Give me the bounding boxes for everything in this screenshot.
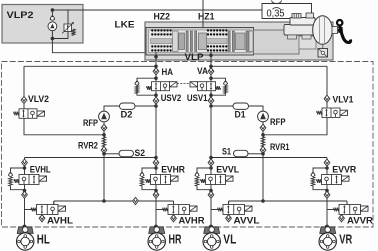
svg-text:RVR1: RVR1 [270,142,290,152]
wire AVVL return stub [228,201,230,205]
node wheel connection VL [209,225,213,229]
wire EVHR bypass lower [142,186,156,190]
wire VA branch to VLV1 [211,65,327,67]
wire VA main line down to wheel VL [210,60,212,227]
bypass check valve of EVHL [8,172,13,176]
node suction junction right [261,133,265,137]
node above EVVL [209,166,213,170]
wire USV2 bypass loop [137,78,156,95]
brake fluid reservoir caps [292,13,314,18]
booster pushrod (pictorial) [332,27,338,34]
reservoir funnel symbol [272,1,282,4]
svg-text:RFP: RFP [83,118,98,128]
wire master cylinder to fitting [322,35,324,49]
valve EVVR [322,175,342,185]
valve AVHR [168,205,190,215]
wire VLV2 to pump suction left [24,118,104,135]
solenoid of EVHR [171,176,179,181]
wire supply line front axle [211,157,327,159]
wire return line rear axle [54,200,174,202]
node above EVVR [325,166,329,170]
restrictor spring RVR2 [102,137,106,147]
check valve in return line rear [133,197,139,204]
wire reservoir loop upper path [262,4,312,19]
svg-text:AVHL: AVHL [47,215,73,225]
check valve at pump inlet (right) [260,124,266,131]
wire VLV1 feed from VA [326,66,328,108]
wire EVVL bypass upper [197,168,211,172]
check valve RVR2 [101,146,107,153]
node supply junction VL [209,156,213,160]
check valve below EVHL [22,191,28,198]
solenoid of EVVR [342,176,350,181]
check valve RVR1 [260,146,266,153]
wire reservoir loop lower path [262,10,312,19]
brake fluid reservoir body [290,18,315,26]
node above EVHR [154,166,158,170]
wire EVHR bypass upper [142,168,156,172]
pressure relief valve in VLP2 [64,24,72,32]
check valve below EVVL [208,191,214,198]
svg-text:HL: HL [37,232,50,246]
spring of VLV2 [14,112,20,116]
wire VLV1 to pump suction right [263,118,327,135]
wire AVVR return stub [346,201,348,205]
spring of EVHR [146,179,151,183]
svg-text:VA: VA [197,66,208,76]
check valve below EVHR [153,191,159,198]
node HZ2 port [154,55,158,59]
pump RFP (right) [258,111,269,122]
wire suction column right [262,131,264,201]
damper D1 [233,103,249,109]
wire EVHL bypass upper [11,168,25,172]
valve AVHL [37,205,59,215]
check valve below USV1 [208,97,214,104]
wire AVHL return stub [53,201,55,205]
node wheel connection HL [22,225,26,229]
pushrod line into master cylinder [202,0,204,28]
wheel brake VL caliper [204,227,220,234]
svg-text:EVVL: EVVL [216,164,239,174]
node below USV2 [154,93,158,97]
port HZ1 line [210,52,212,66]
wire AVVR return stub [346,201,348,205]
node below EVHR [154,189,158,193]
piston spring HZ2 (dot grid) [151,29,172,51]
wire supply line rear axle [25,157,157,159]
node HA junction [154,65,158,69]
solenoid of USV1 [190,82,198,87]
piston rod HZ2 [151,39,173,44]
spring of VLV1 [317,111,323,115]
solenoid of AVHR [190,206,198,211]
spring of USV1 [216,86,221,90]
node return junction right [261,199,265,203]
bypass check valve of USV2 [135,81,140,85]
master cylinder body shell [146,28,254,56]
check valve below AVHR [171,215,177,222]
svg-text:EVHL: EVHL [30,164,51,174]
brake booster (pictorial) [313,16,333,45]
svg-text:VLV2: VLV2 [28,94,49,104]
wheel brake HR caliper [149,227,165,234]
svg-text:S1: S1 [222,146,231,156]
solenoid of USV2 [170,82,178,87]
svg-text:USV1: USV1 [187,93,208,103]
spring of AVVL [218,208,224,212]
check valve at VA [208,68,214,75]
valve EVHR [151,175,171,185]
spring of AVHL [31,208,37,212]
spring of AVVR [334,208,340,212]
accumulator S1 [234,150,249,156]
orifice arc symbol [273,8,281,10]
wire VLV2 feed from HA [23,66,25,109]
solenoid of AVVR [361,206,369,211]
wire wheel line HL [24,158,26,227]
check valve above EVVR [324,159,330,166]
wire to accumulator S1 [247,153,263,155]
piston rod HZ1 [207,39,228,44]
wire AVVL return stub [228,201,230,205]
wire wheel line VR [326,158,328,227]
pre-charge pump unit VLP2 box [2,5,83,44]
port HZ2 line [155,52,157,66]
wheel brake VR caliper [320,227,336,234]
check valve below AVVL [226,215,232,222]
node HZ1 port [209,54,213,58]
svg-text:VLV1: VLV1 [333,94,354,104]
valve VLV2 [19,109,37,119]
svg-text:VL: VL [223,232,236,246]
check valve above pump VLP2 [50,15,55,20]
wire AVHR return stub [173,201,175,205]
bypass spring of USV1 [224,86,228,94]
wire relief valve drop [67,10,69,24]
check valve below AVHL [39,215,45,222]
piston spring HZ1 (dot grid) [207,29,228,51]
check valve above EVHL [22,159,28,166]
spring of EVHL [14,179,19,183]
svg-text:HZ2: HZ2 [154,12,171,22]
svg-text:HR: HR [169,232,182,246]
valve AVVL [223,205,245,215]
wheel brake HR disc [148,233,165,250]
hydraulic unit boundary (dashed box) [2,62,374,228]
pump RFP (left) [99,111,110,122]
wire AVVR input from wheel line [327,209,339,211]
wheel brake VL disc [203,233,220,250]
solenoid of AVHL [58,206,66,211]
node VA junction [209,65,213,69]
check valve at HA [153,68,159,75]
wire VLP2 suction to master cylinder VLP port [52,39,144,53]
seals HZ2 [186,31,188,52]
node wheel connection VR [325,225,329,229]
svg-text:D1: D1 [235,109,246,119]
solenoid of EVVL [226,176,234,181]
check valve below USV2 [153,97,159,104]
node suction junction left [102,133,106,137]
node above USV1 [209,76,213,80]
svg-text:LKE: LKE [115,20,136,31]
spring of EVVR [317,179,322,183]
svg-text:USV2: USV2 [161,93,182,103]
node accumulator junction S2 [102,152,106,156]
wire HA main line down to wheel HR [155,60,157,227]
svg-text:HA: HA [162,67,174,77]
valve EVHL [19,175,39,185]
wheel brake HL caliper [17,227,33,234]
svg-text:HZ1: HZ1 [198,12,215,22]
bypass spring of EVHR [140,177,144,186]
accumulator S2 [119,150,134,156]
restrictor spring RVR1 [261,137,265,147]
solenoid of VLV1 [340,110,348,115]
wire to accumulator S2 [104,153,120,155]
node above EVHL [23,166,27,170]
wire EVHL bypass lower [11,186,25,190]
wire AVHR input from wheel line [156,209,168,211]
node accumulator junction S1 [261,152,265,156]
master cylinder body (pictorial) [284,25,314,36]
wire AVVL input from wheel line [211,209,223,211]
master cylinder right extension shells [254,30,300,54]
valve EVVL [206,175,226,185]
check valve at pump inlet (left) [101,124,107,131]
svg-text:AVVR: AVVR [347,215,373,225]
check valve below EVVR [324,191,330,198]
svg-text:AVVL: AVVL [234,215,260,225]
bypass spring of EVVL [195,177,199,186]
spring of EVVL [201,179,206,183]
node below USV1 [209,93,213,97]
spring of AVHR [163,208,169,212]
node below EVHL [23,189,27,193]
check valve above VLV1 [324,95,330,102]
spring of USV2 [147,86,152,90]
svg-text:RVR2: RVR2 [78,140,98,150]
wire pump RFP right to check [262,122,264,125]
node below EVVL [209,189,213,193]
wire return line front axle [229,200,347,202]
wire AVHR return stub [173,201,175,205]
valve USV2 [152,82,170,91]
node below EVVR [325,189,329,193]
solenoid of VLV2 [37,111,45,116]
wire pump RFP left to check [103,122,105,125]
wire damper D1 branch [211,106,263,111]
svg-text:RFP: RFP [270,117,286,127]
svg-text:VR: VR [339,232,352,246]
svg-text:0,35: 0,35 [267,8,285,19]
svg-text:D2: D2 [121,109,133,119]
bypass spring of USV2 [135,86,139,94]
wire pump bottom [51,31,53,39]
node return junction left [102,199,106,203]
valve VLV1 [322,108,340,118]
wire VLP2 to reservoir orifice loop [52,10,262,15]
wire relief valve bottom loop [52,32,68,39]
pump VLP2 circle [48,22,57,31]
svg-text:VLP2: VLP2 [7,10,34,21]
node supply junction HR [154,156,158,160]
bypass check valve of EVHR [140,172,145,176]
node VLP2 inlet junction [51,37,55,41]
valve USV1 [198,82,216,91]
wire AVHL return stub [53,201,55,205]
solenoid of AVVL [245,206,253,211]
node pump outlet VA [209,104,213,108]
wire AVHL input from wheel line [25,209,37,211]
damper D2 [120,103,136,109]
solenoid of EVHL [39,176,47,181]
bypass check valve of EVVR [311,172,316,176]
check valve above VLV2 [21,96,27,103]
brake pedal (pictorial) [337,20,342,25]
svg-text:EVHR: EVHR [161,164,185,174]
check valve above EVVL [208,159,214,166]
wire USV1 bypass loop [211,78,226,95]
bypass spring of EVVR [311,177,315,186]
wheel brake VR disc [319,233,336,250]
node wheel connection HR [154,225,158,229]
bypass check valve of EVVL [195,172,200,176]
wire HA branch to VLV2 [24,65,156,67]
bypass check valve of USV1 [223,81,228,85]
check valve above EVHR [153,159,159,166]
wire damper D2 branch [104,106,156,111]
piston HZ2 [173,31,179,52]
fitting square in LKE box [318,49,328,58]
node pump outlet HA [154,104,158,108]
svg-text:EVVR: EVVR [332,164,356,174]
svg-text:AVHR: AVHR [179,215,205,225]
wire EVVR bypass lower [313,186,327,190]
master cylinder unit LKE box [145,22,333,60]
node VLP2 outlet junction [51,8,55,12]
node above USV2 [154,76,158,80]
svg-text:S2: S2 [135,148,146,158]
check valve below AVVR [339,215,345,222]
bypass spring of EVHL [9,177,13,186]
wire EVVL bypass lower [197,186,211,190]
wire EVVR bypass upper [313,168,327,172]
wire suction column left [103,131,105,201]
valve AVVR [339,205,361,215]
piston HZ1 [228,31,230,52]
wheel brake HL disc [17,233,34,250]
